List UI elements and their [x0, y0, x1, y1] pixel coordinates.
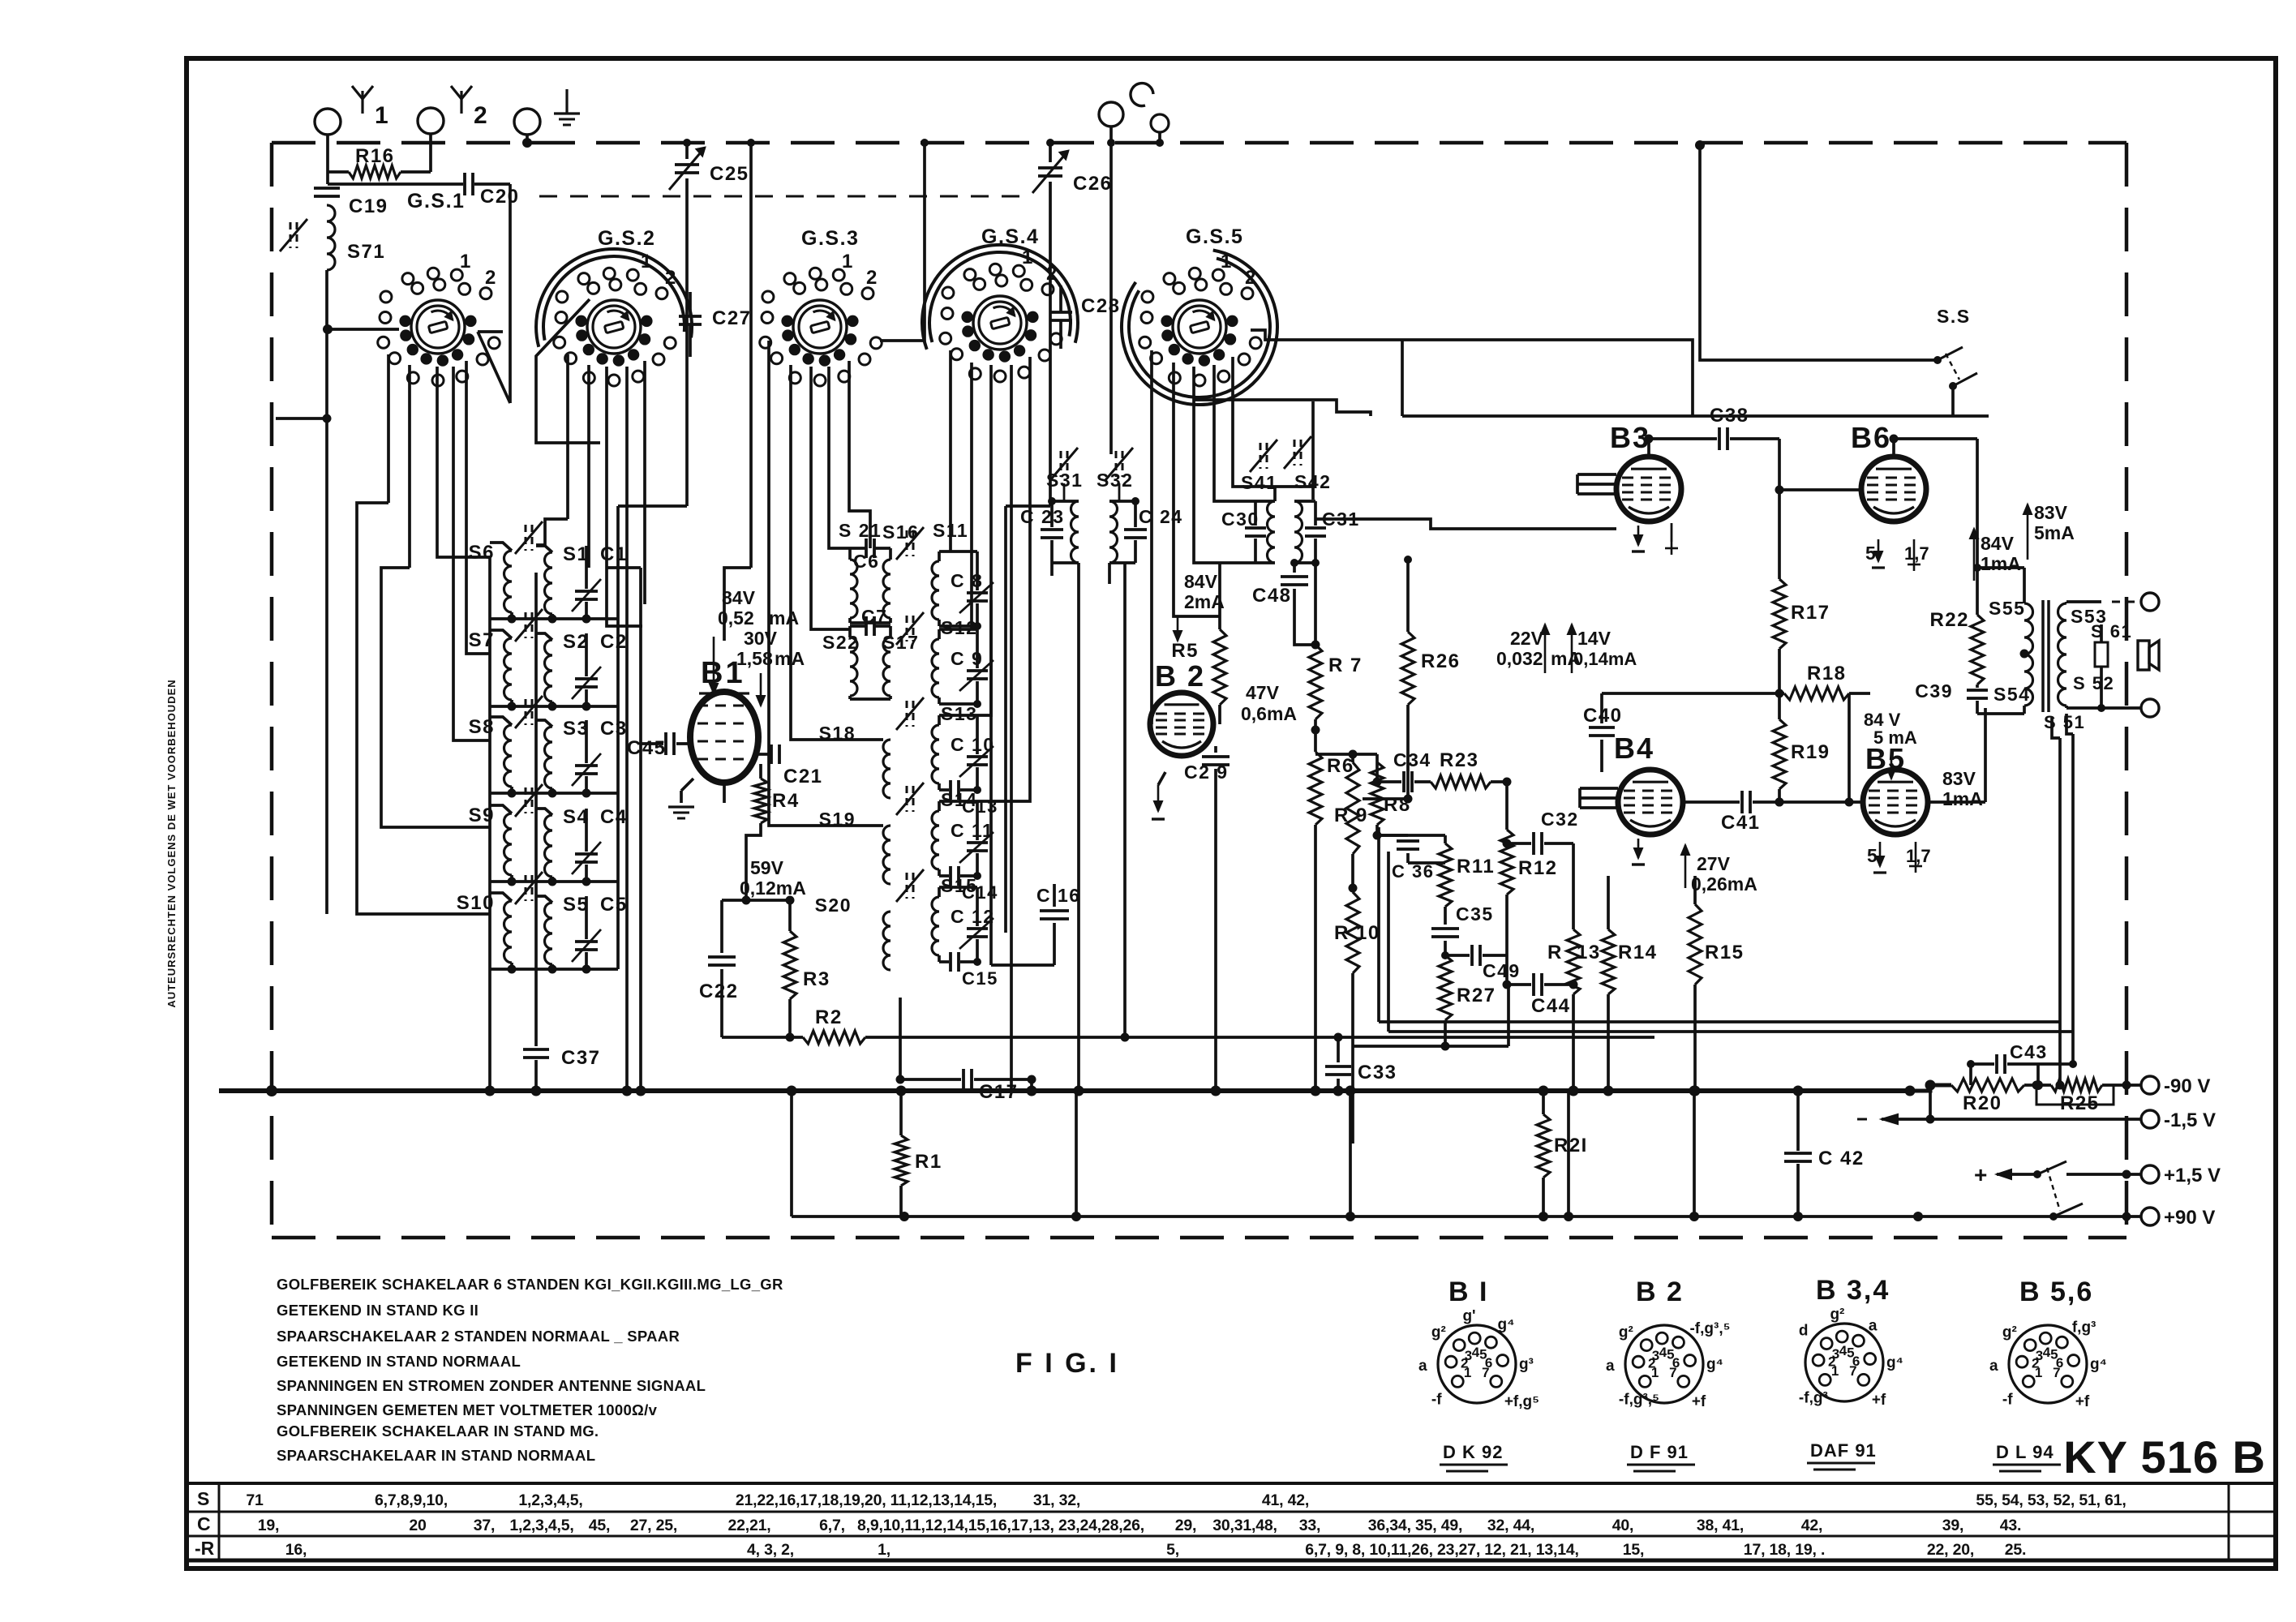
- svg-text:C21: C21: [783, 766, 823, 787]
- resistor R5: [1218, 563, 1221, 629]
- transformer S22/S17 with C7: [850, 637, 857, 696]
- trimmer C25: [685, 143, 689, 159]
- loudspeaker: [2138, 641, 2149, 670]
- capacitor C13: [939, 788, 949, 792]
- wire: [1109, 127, 1113, 143]
- svg-text:g²: g²: [1830, 1306, 1844, 1323]
- ground terminal: [514, 109, 540, 135]
- wire: [2065, 602, 2068, 603]
- svg-text:-R: -R: [195, 1538, 215, 1559]
- svg-text:D F 91: D F 91: [1630, 1442, 1689, 1462]
- svg-text:1,2,3,4,5,: 1,2,3,4,5,: [509, 1517, 573, 1534]
- antenna symbol 1: [361, 91, 363, 114]
- resistor R2: [722, 1036, 803, 1039]
- svg-text:+f,g⁵: +f,g⁵: [1504, 1393, 1539, 1410]
- tube B3: [1616, 457, 1681, 521]
- svg-text:1,7: 1,7: [1906, 846, 1931, 866]
- svg-text:a: a: [1869, 1318, 1878, 1335]
- svg-text:C44: C44: [1531, 995, 1571, 1017]
- core S8/S3: [525, 699, 527, 725]
- svg-text:40,: 40,: [1612, 1517, 1634, 1534]
- svg-text:C 16: C 16: [1036, 885, 1081, 906]
- svg-text:C3: C3: [600, 718, 628, 740]
- rotary switch G.S.4: [973, 296, 1027, 350]
- wire: [387, 354, 390, 503]
- svg-text:C30: C30: [1221, 508, 1260, 530]
- wire: [526, 135, 529, 143]
- svg-text:27, 25,: 27, 25,: [630, 1517, 677, 1534]
- svg-text:42,: 42,: [1801, 1517, 1823, 1534]
- output transformer S53/S52 secondary: [2058, 603, 2067, 706]
- capacitor C19: [314, 187, 340, 190]
- terminal +90V: [2141, 1208, 2159, 1225]
- bus to R20: [1906, 1085, 1951, 1091]
- svg-text:C39: C39: [1915, 680, 1953, 702]
- svg-text:0,52: 0,52: [718, 607, 754, 629]
- wire: [326, 135, 329, 184]
- wire B5 plate: [1928, 800, 1985, 804]
- svg-text:a: a: [1989, 1358, 1998, 1375]
- wire G.S.5 to B3 lane: [1251, 330, 1693, 416]
- svg-text:C32: C32: [1541, 809, 1579, 830]
- svg-text:2: 2: [474, 102, 488, 129]
- svg-text:C20: C20: [480, 186, 520, 208]
- resistor R22: [1976, 439, 1979, 615]
- svg-text:R: R: [1547, 942, 1563, 963]
- svg-text:g³: g³: [1519, 1356, 1534, 1373]
- svg-text:S 61: S 61: [2091, 621, 2132, 642]
- svg-text:B6: B6: [1851, 421, 1891, 454]
- capacitor C35: [1431, 927, 1459, 930]
- ground bus wire: [219, 1088, 1906, 1093]
- svg-text:g²: g²: [2002, 1324, 2017, 1341]
- svg-text:30,31,48,: 30,31,48,: [1212, 1517, 1277, 1534]
- svg-text:SPAARSCHAKELAAR IN STAND NO: SPAARSCHAKELAAR IN STAND NORMAAL: [277, 1447, 595, 1464]
- wire: [790, 1091, 793, 1216]
- capacitor C41: [1683, 800, 1740, 804]
- wire: [1006, 504, 1050, 508]
- wire: [1315, 753, 1377, 756]
- tube B3 cathode: [1637, 526, 1640, 545]
- resistor R19: [1773, 719, 1786, 789]
- svg-text:G.S.3: G.S.3: [801, 227, 859, 250]
- inductor S5: [536, 896, 552, 903]
- svg-text:R15: R15: [1705, 942, 1745, 963]
- trimmer bus wire: [616, 506, 620, 969]
- wire: [474, 182, 510, 186]
- svg-text:0,26mA: 0,26mA: [1691, 873, 1757, 895]
- resistor R10: [1346, 892, 1359, 973]
- svg-text:D K 92: D K 92: [1443, 1442, 1503, 1462]
- svg-text:31, 32,: 31, 32,: [1033, 1491, 1080, 1509]
- svg-text:1mA: 1mA: [1981, 553, 2021, 574]
- rotary switch G.S.2: [587, 300, 641, 354]
- svg-text:mA: mA: [775, 648, 805, 669]
- svg-text:55, 54, 53, 52, 51, 61,: 55, 54, 53, 52, 51, 61,: [1976, 1491, 2126, 1509]
- svg-text:C28: C28: [1081, 295, 1121, 317]
- svg-text:GOLFBEREIK SCHAKELAAR 6 STAN: GOLFBEREIK SCHAKELAAR 6 STANDEN KGI_KGII…: [277, 1276, 783, 1293]
- svg-text:1: 1: [1464, 1365, 1471, 1380]
- svg-text:84V: 84V: [722, 587, 756, 608]
- svg-text:R12: R12: [1518, 857, 1558, 879]
- svg-text:R3: R3: [803, 968, 830, 990]
- antenna terminal A1: [315, 109, 341, 135]
- svg-text:R8: R8: [1384, 794, 1411, 816]
- resistor R17: [1773, 579, 1786, 649]
- svg-text:C15: C15: [962, 968, 998, 989]
- svg-text:S 52: S 52: [2073, 673, 2114, 693]
- svg-text:1: 1: [1022, 247, 1034, 268]
- wire box top: [1402, 414, 1989, 418]
- svg-text:g⁴: g⁴: [1706, 1356, 1723, 1373]
- svg-text:8,9,10,11,12,14,15,16,17,13, 2: 8,9,10,11,12,14,15,16,17,13, 23,24,28,26…: [857, 1517, 1144, 1534]
- svg-text:29,: 29,: [1175, 1517, 1197, 1534]
- svg-text:B 2: B 2: [1155, 659, 1205, 693]
- trimmer C28: [1049, 311, 1072, 314]
- svg-text:G.S.5: G.S.5: [1186, 225, 1243, 248]
- wire -1,5V rail: [1882, 1118, 2141, 1121]
- capacitor C44: [1507, 983, 1531, 986]
- svg-text:S32: S32: [1097, 470, 1133, 491]
- svg-text:G.S.4: G.S.4: [981, 225, 1039, 248]
- svg-text:B 2: B 2: [1636, 1277, 1684, 1307]
- svg-text:83V: 83V: [2034, 502, 2068, 523]
- capacitor C17 wire: [900, 1078, 961, 1081]
- svg-text:C33: C33: [1358, 1062, 1397, 1083]
- svg-text:GETEKEND IN STAND NORMAAL: GETEKEND IN STAND NORMAAL: [277, 1353, 521, 1370]
- svg-text:-f,g³,⁵: -f,g³,⁵: [1619, 1391, 1659, 1408]
- svg-text:+: +: [1974, 1162, 1989, 1187]
- svg-text:1: 1: [641, 251, 653, 272]
- svg-text:S 51: S 51: [2044, 712, 2085, 732]
- resistor R21: [1542, 1091, 1545, 1114]
- svg-text:R23: R23: [1440, 749, 1479, 771]
- trimmer C27 wire: [478, 330, 503, 333]
- svg-text:g⁴: g⁴: [2090, 1356, 2107, 1373]
- svg-text:C31: C31: [1322, 508, 1360, 530]
- svg-text:-f,g³,⁵: -f,g³,⁵: [1689, 1320, 1730, 1337]
- svg-text:R2: R2: [815, 1006, 843, 1028]
- svg-text:g²: g²: [1619, 1324, 1633, 1341]
- svg-text:R17: R17: [1791, 602, 1830, 624]
- core S12: [906, 616, 908, 642]
- table frame: [189, 1482, 2276, 1485]
- capacitor C22: [722, 899, 746, 902]
- svg-text:B3: B3: [1610, 421, 1650, 454]
- svg-text:S14: S14: [941, 789, 977, 810]
- svg-text:84V: 84V: [1981, 533, 2015, 554]
- svg-text:2: 2: [866, 267, 878, 289]
- svg-text:R11: R11: [1457, 856, 1495, 878]
- wire: [429, 134, 432, 172]
- transformer S42 C31: [1294, 501, 1302, 563]
- svg-text:9: 9: [1356, 805, 1368, 826]
- svg-text:+1,5 V: +1,5 V: [2164, 1165, 2221, 1186]
- capacitor C43: [1971, 1062, 1994, 1066]
- svg-text:1,58: 1,58: [736, 648, 773, 669]
- tube B4 grid wires: [1580, 787, 1618, 790]
- resistor R20: [1951, 1079, 2024, 1092]
- tube B4: [1618, 770, 1683, 835]
- resistor R1: [899, 1091, 903, 1135]
- svg-text:DAF 91: DAF 91: [1810, 1440, 1877, 1461]
- svg-text:16,: 16,: [285, 1541, 307, 1559]
- svg-text:2mA: 2mA: [1184, 591, 1225, 612]
- svg-text:-90 V: -90 V: [2164, 1075, 2210, 1097]
- svg-text:S55: S55: [1989, 598, 2025, 619]
- wire to B3 grid: [1315, 519, 1616, 529]
- capacitor C34: [1377, 780, 1401, 783]
- svg-text:1: 1: [1831, 1363, 1839, 1379]
- svg-text:C25: C25: [710, 163, 749, 185]
- svg-text:27V: 27V: [1697, 853, 1731, 874]
- svg-text:6,7,: 6,7,: [819, 1517, 845, 1534]
- svg-text:g⁴: g⁴: [1886, 1354, 1903, 1371]
- wire: [1075, 1091, 1078, 1216]
- svg-text:84V: 84V: [1184, 571, 1218, 592]
- capacitor C36: [1377, 834, 1408, 837]
- svg-text:13: 13: [1577, 942, 1601, 963]
- svg-text:S15: S15: [941, 875, 977, 896]
- svg-text:7: 7: [2053, 1365, 2060, 1380]
- svg-text:R26: R26: [1421, 650, 1461, 672]
- svg-text:g²: g²: [1431, 1324, 1446, 1341]
- capacitor C42: [1796, 1091, 1800, 1151]
- svg-text:C45: C45: [627, 737, 667, 759]
- wire: [490, 880, 618, 883]
- capacitor C21: [758, 753, 769, 756]
- tuning gang link dashed: [539, 195, 1024, 198]
- capacitor C14: [939, 874, 949, 878]
- svg-text:5,: 5,: [1166, 1541, 1179, 1559]
- svg-text:S41: S41: [1241, 472, 1277, 493]
- svg-text:1: 1: [1221, 251, 1233, 272]
- outline: [536, 299, 600, 443]
- inductor S14: [932, 811, 939, 869]
- inductor S20: [883, 912, 891, 970]
- svg-text:S22: S22: [822, 632, 859, 653]
- svg-text:C 24: C 24: [1139, 506, 1183, 527]
- wire: [1363, 797, 1408, 800]
- svg-text:15,: 15,: [1623, 1541, 1645, 1559]
- chassis dashed boundary: [272, 143, 2126, 1238]
- svg-text:1: 1: [375, 102, 389, 129]
- svg-text:R16: R16: [355, 145, 395, 167]
- inductor S12: [932, 639, 939, 697]
- capacitor C32: [1507, 842, 1531, 845]
- svg-text:36,34, 35, 49,: 36,34, 35, 49,: [1368, 1517, 1462, 1534]
- svg-text:7: 7: [1849, 1363, 1856, 1379]
- svg-text:1,2,3,4,5,: 1,2,3,4,5,: [518, 1491, 582, 1509]
- resistor R16: [328, 170, 349, 174]
- svg-text:R19: R19: [1791, 741, 1830, 763]
- wire: [989, 600, 993, 965]
- svg-text:47V: 47V: [1246, 682, 1280, 703]
- svg-text:2: 2: [1046, 263, 1058, 285]
- svg-text:mA: mA: [769, 607, 799, 629]
- wire feeder to B1 anode: [749, 143, 753, 568]
- rotary switch G.S.5: [1173, 300, 1226, 354]
- osc bus wire: [1004, 506, 1007, 933]
- svg-text:5 mA: 5 mA: [1873, 727, 1917, 748]
- svg-text:R20: R20: [1963, 1092, 2002, 1114]
- wire: [618, 504, 687, 508]
- svg-text:C19: C19: [349, 195, 388, 217]
- trimmer C27: [679, 315, 702, 318]
- svg-text:S11: S11: [933, 520, 968, 541]
- capacitor C39: [1976, 684, 1979, 688]
- svg-text:7: 7: [1669, 1365, 1676, 1380]
- svg-text:-f: -f: [1431, 1391, 1442, 1408]
- terminal +1,5V: [2141, 1165, 2159, 1183]
- svg-text:g⁴: g⁴: [1498, 1316, 1515, 1333]
- capacitor C29: [1214, 746, 1217, 753]
- wire staircase to B3 box: [1194, 400, 1371, 416]
- svg-text:2: 2: [1245, 267, 1257, 289]
- output terminal: [2141, 699, 2159, 717]
- wire: [325, 270, 328, 328]
- resistor R7: [1314, 563, 1317, 645]
- wire rail: [1388, 1030, 2073, 1033]
- svg-text:+90 V: +90 V: [2164, 1207, 2215, 1229]
- wire: [949, 350, 952, 551]
- terminal -1,5V: [2141, 1110, 2159, 1128]
- svg-text:SPAARSCHAKELAAR 2 STANDEN: SPAARSCHAKELAAR 2 STANDEN NORMAAL _ SPAA…: [277, 1328, 680, 1345]
- svg-text:17, 18, 19, .: 17, 18, 19, .: [1744, 1541, 1825, 1559]
- svg-text:D L 94: D L 94: [1996, 1442, 2054, 1462]
- inductor S10: [490, 893, 512, 901]
- resistor R9: [1351, 754, 1354, 762]
- svg-text:S19: S19: [819, 809, 856, 830]
- svg-text:1: 1: [460, 251, 472, 272]
- output transformer S55/S54 primary: [2024, 603, 2033, 706]
- inductor S19: [883, 826, 891, 884]
- wire: [1602, 692, 1784, 695]
- inductor S7: [490, 630, 512, 638]
- resistor R18: [1784, 687, 1849, 700]
- svg-text:f,g³: f,g³: [2072, 1319, 2096, 1337]
- svg-text:B I: B I: [1448, 1277, 1488, 1307]
- svg-text:C7: C7: [861, 606, 887, 627]
- svg-text:GETEKEND IN STAND KG II: GETEKEND IN STAND KG II: [277, 1302, 479, 1319]
- svg-text:+f: +f: [1692, 1393, 1706, 1410]
- resistor R3: [788, 900, 792, 931]
- svg-text:-f: -f: [2002, 1391, 2013, 1408]
- svg-text:C26: C26: [1073, 173, 1113, 195]
- svg-text:R5: R5: [1171, 640, 1199, 662]
- svg-text:AUTEURSRECHTEN VOLGENS DE W: AUTEURSRECHTEN VOLGENS DE WET VOORBEHOUD…: [165, 679, 178, 1007]
- tube B4 below: [1637, 839, 1640, 858]
- inductor S4: [536, 809, 552, 815]
- wire: [1848, 693, 1851, 802]
- capacitor C38: [1718, 427, 1721, 450]
- tube B1 cathode to ground: [681, 779, 693, 791]
- resistor R26: [1406, 560, 1410, 632]
- svg-text:83V: 83V: [1942, 768, 1976, 789]
- svg-text:71: 71: [246, 1491, 264, 1509]
- svg-text:C38: C38: [1710, 405, 1749, 427]
- svg-text:B 5,6: B 5,6: [2019, 1277, 2093, 1307]
- svg-text:B 3,4: B 3,4: [1816, 1275, 1890, 1306]
- wire: [490, 968, 618, 971]
- svg-text:33,: 33,: [1299, 1517, 1321, 1534]
- phone jack: [1099, 102, 1123, 127]
- svg-text:R2I: R2I: [1554, 1135, 1588, 1156]
- svg-text:4, 3, 2,: 4, 3, 2,: [747, 1541, 794, 1559]
- wire +90V rail: [792, 1215, 2141, 1218]
- svg-text:C 42: C 42: [1818, 1148, 1865, 1169]
- resistor R12: [1505, 782, 1508, 830]
- wire: [639, 744, 642, 1091]
- svg-text:F I G. I: F I G. I: [1015, 1348, 1119, 1379]
- svg-text:R 10: R 10: [1334, 922, 1380, 944]
- svg-text:R4: R4: [772, 790, 800, 812]
- core S11: [906, 530, 908, 556]
- wire: [745, 845, 748, 900]
- svg-text:C4: C4: [600, 806, 628, 828]
- terminal -90V: [2141, 1076, 2159, 1094]
- wire from top to G.S.3: [880, 143, 925, 341]
- output terminal: [2141, 593, 2159, 611]
- wire: [534, 573, 538, 1046]
- svg-text:S 21: S 21: [839, 520, 882, 541]
- svg-text:R1: R1: [915, 1151, 942, 1173]
- svg-text:1: 1: [2035, 1365, 2042, 1380]
- svg-text:C2: C2: [600, 631, 628, 653]
- resistor R27: [1439, 955, 1452, 1020]
- core S7/S2: [525, 612, 527, 638]
- wire: [325, 329, 328, 914]
- wire S42 riser: [1311, 401, 1315, 500]
- svg-text:0,14mA: 0,14mA: [1573, 649, 1637, 669]
- svg-text:6,7, 9, 8, 10,11,26, 23,27, 12: 6,7, 9, 8, 10,11,26, 23,27, 12, 21, 13,1…: [1305, 1541, 1578, 1559]
- svg-text:R22: R22: [1929, 609, 1969, 631]
- svg-text:S.S: S.S: [1937, 306, 1971, 327]
- svg-text:1: 1: [1651, 1365, 1659, 1380]
- svg-text:1,7: 1,7: [1904, 543, 1929, 564]
- svg-text:19,: 19,: [258, 1517, 280, 1534]
- svg-text:S: S: [197, 1488, 211, 1509]
- svg-text:0,6mA: 0,6mA: [1241, 703, 1297, 724]
- svg-text:21,22,16,17,18,19,20, 11,12,1: 21,22,16,17,18,19,20, 11,12,13,14,15,: [736, 1491, 997, 1509]
- capacitor C37: [523, 1048, 549, 1051]
- tube B2 cathode ground: [1158, 772, 1165, 785]
- svg-text:0,032: 0,032: [1496, 648, 1543, 669]
- wire steps from G.S.2: [536, 519, 568, 545]
- wire B6 grid: [1778, 439, 1781, 490]
- svg-text:S13: S13: [941, 703, 977, 724]
- inductor S13: [932, 725, 939, 783]
- svg-text:C2 9: C2 9: [1184, 762, 1229, 783]
- svg-text:R: R: [1334, 805, 1350, 826]
- inductor S11: [932, 561, 939, 620]
- wire: [1894, 437, 1977, 440]
- svg-text:C6: C6: [853, 551, 879, 572]
- svg-text:14V: 14V: [1577, 628, 1611, 649]
- resistor R15: [1693, 876, 1697, 904]
- svg-text:SPANNINGEN EN STROMEN ZONDE: SPANNINGEN EN STROMEN ZONDER ANTENNE SIG…: [277, 1377, 706, 1394]
- svg-text:37,: 37,: [474, 1517, 496, 1534]
- svg-text:C1: C1: [600, 543, 628, 565]
- svg-text:C43: C43: [2010, 1041, 2048, 1062]
- svg-text:S12: S12: [941, 617, 977, 638]
- wire: [1273, 487, 1277, 501]
- svg-text:C22: C22: [699, 980, 739, 1002]
- resistor R23: [1414, 780, 1431, 783]
- wire R25 loop: [2036, 1085, 2114, 1105]
- tube B5: [1863, 770, 1928, 835]
- antenna symbol 2: [460, 91, 462, 114]
